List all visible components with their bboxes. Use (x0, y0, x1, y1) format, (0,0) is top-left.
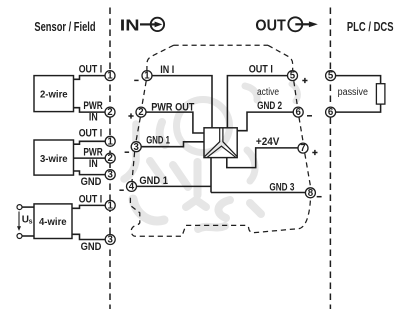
wire 4-wire supply + (22, 206, 34, 208)
wire 4-wire GND (72, 234, 105, 239)
PLC terminal 6 (326, 107, 336, 117)
svg-text:3: 3 (134, 142, 140, 153)
svg-text:2: 2 (107, 107, 112, 118)
watermark logo (light gray background) (124, 84, 298, 229)
svg-text:3-wire: 3-wire (40, 154, 68, 165)
polarity signs (119, 78, 321, 197)
svg-text:+24V: +24V (256, 136, 280, 148)
sensor box 4-wire (34, 204, 72, 239)
svg-text:PWR: PWR (83, 100, 102, 112)
svg-text:1: 1 (108, 136, 114, 147)
outline bottom contour (130, 198, 310, 237)
svg-text:IN: IN (89, 158, 98, 170)
svg-text:5: 5 (290, 71, 296, 82)
PLC terminals 5,6 (326, 71, 336, 118)
svg-text:PLC / DCS: PLC / DCS (347, 20, 394, 34)
sign - terminal 1 (134, 79, 138, 81)
svg-text:GND 1: GND 1 (146, 135, 170, 147)
wire passive loop top (336, 76, 381, 84)
module terminal 2 (136, 107, 146, 117)
module output terminals 5-8 (288, 71, 316, 198)
sign + terminal 2 (128, 113, 133, 118)
svg-text:OUT: OUT (255, 17, 286, 34)
svg-text:5: 5 (328, 71, 334, 82)
svg-text:PWR OUT: PWR OUT (151, 101, 194, 113)
svg-text:2: 2 (138, 107, 143, 118)
wire GND 1 row4: terminal 4 to ground vertical (137, 185, 211, 187)
outline left segment 3-4 (132, 152, 135, 181)
sign - terminal 3 (125, 151, 130, 153)
svg-text:1: 1 (144, 71, 150, 82)
IN icon (140, 18, 164, 31)
wire GND 1 row3: terminal 3 to box left (140, 142, 204, 147)
svg-text:OUT I: OUT I (79, 64, 103, 76)
outline right segment 7-8 (305, 154, 311, 188)
svg-text:6: 6 (296, 107, 302, 118)
svg-text:passive: passive (338, 87, 369, 98)
svg-text:active: active (257, 87, 279, 98)
supply arrow (17, 212, 21, 231)
svg-text:4-wire: 4-wire (39, 217, 67, 228)
wire 3-wire PWR/IN (74, 157, 106, 159)
left boundary dashed line (Sensor/Field) (109, 8, 111, 310)
outline left segment 1-2 (142, 81, 146, 107)
svg-text:s: s (29, 219, 33, 226)
module terminal 1 (142, 71, 152, 81)
wire GND 2: box right to terminal 6 (237, 112, 293, 131)
outline right segment 5-6 (294, 81, 298, 107)
field terminal circles (left column) (105, 71, 115, 245)
supply terminal circle + (17, 205, 22, 210)
supply terminal circle - (17, 234, 22, 239)
module terminal 5 (288, 71, 298, 81)
outline top-right corner (268, 45, 293, 70)
svg-text:4: 4 (129, 182, 135, 193)
module terminal 3 (131, 142, 141, 152)
svg-text:6: 6 (328, 107, 334, 118)
svg-text:PWR: PWR (83, 146, 102, 158)
load resistor (passive) (376, 84, 385, 104)
wire GND 3: ground vertical to terminal 8 (211, 192, 305, 194)
module terminal 6 (293, 107, 303, 117)
terminal circle 1 (3-wire OUT I) (105, 136, 115, 146)
svg-text:GND: GND (81, 176, 102, 188)
svg-text:GND 1: GND 1 (139, 175, 168, 187)
wire PWR OUT: terminal 2 to box left (146, 112, 204, 133)
wire 4-wire supply - (22, 235, 34, 237)
wire +24V: box bottom to terminal 7 (227, 148, 298, 168)
wire 2-wire PWR/IN (74, 108, 106, 112)
module dashed outline (130, 45, 310, 236)
module terminal 7 (298, 143, 308, 153)
module input terminals 1-4 (127, 71, 153, 192)
terminal circle 1 (4-wire OUT I) (105, 200, 115, 210)
outline left segment 2-3 (136, 117, 140, 141)
PLC terminal 5 (326, 71, 336, 81)
svg-text:2: 2 (108, 153, 113, 164)
terminal circle 3 (3-wire GND) (105, 170, 115, 180)
terminal circle 3 (4-wire GND) (105, 235, 115, 245)
wire 2-wire OUT I (74, 76, 106, 80)
isolation amplifier box (204, 128, 237, 158)
sign - terminal 6 (307, 115, 312, 117)
wire ground vertical from box bottom (210, 158, 212, 193)
svg-text:Sensor / Field: Sensor / Field (34, 20, 95, 34)
svg-text:IN: IN (120, 17, 140, 34)
isolation symbol (205, 128, 237, 158)
svg-text:IN: IN (89, 111, 98, 123)
right boundary dashed line (PLC/DCS) (329, 8, 331, 310)
sign - terminal 4 (119, 189, 123, 191)
terminal circle 2 (3-wire PWR) (105, 153, 115, 163)
sensor box 3-wire (34, 140, 74, 175)
wire 3-wire GND (74, 171, 106, 175)
svg-text:IN I: IN I (160, 64, 174, 76)
field-side wire labels (79, 64, 103, 253)
sign - terminal 8 (317, 196, 322, 198)
terminal circle 2 (2-wire PWR) (105, 107, 115, 117)
sign + terminal 7 (312, 150, 317, 155)
svg-text:3: 3 (108, 235, 114, 246)
sign + terminal 5 (302, 78, 307, 83)
outline top (174, 44, 269, 46)
svg-text:GND: GND (81, 241, 102, 253)
module labels (139, 64, 294, 194)
outline top-left corner (147, 45, 174, 70)
svg-text:GND 3: GND 3 (269, 181, 294, 193)
svg-text:7: 7 (300, 143, 305, 154)
svg-text:OUT I: OUT I (249, 64, 273, 76)
svg-text:OUT I: OUT I (79, 127, 103, 139)
svg-text:8: 8 (308, 188, 314, 199)
outline right segment 6-7 (299, 117, 303, 143)
svg-text:3: 3 (108, 170, 114, 181)
wire passive loop bottom (336, 104, 381, 112)
terminal circle 1 (2-wire OUT I) (105, 71, 115, 81)
wire 4-wire OUT I (72, 205, 105, 208)
OUT icon (288, 17, 318, 31)
wire IN I: terminal 1 to box top (152, 76, 212, 128)
svg-text:2-wire: 2-wire (40, 90, 68, 101)
svg-text:1: 1 (107, 71, 113, 82)
sensor box 2-wire (34, 76, 74, 112)
svg-text:1: 1 (108, 201, 114, 212)
module terminal 4 (127, 181, 137, 191)
svg-text:GND 2: GND 2 (257, 100, 282, 112)
module terminal 8 (305, 188, 315, 198)
wires: solid (22, 76, 381, 240)
svg-text:OUT I: OUT I (79, 193, 103, 205)
wire 3-wire OUT I (74, 141, 106, 144)
wire OUT I: box top to terminal 5 (227, 76, 287, 128)
